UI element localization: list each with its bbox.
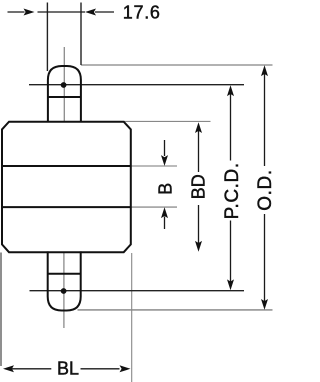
svg-text:B: B bbox=[156, 183, 176, 195]
svg-text:BL: BL bbox=[57, 359, 79, 379]
svg-text:17.6: 17.6 bbox=[123, 3, 161, 23]
svg-text:BD: BD bbox=[188, 174, 208, 199]
svg-text:O.D.: O.D. bbox=[255, 169, 276, 210]
svg-text:P.C.D.: P.C.D. bbox=[222, 162, 243, 219]
